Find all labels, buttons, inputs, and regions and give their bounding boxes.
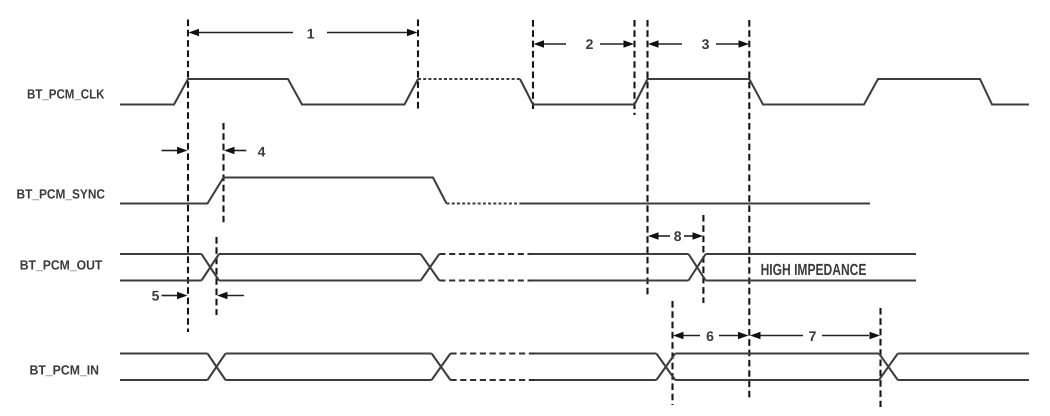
svg-text:HIGH IMPEDANCE: HIGH IMPEDANCE <box>761 261 867 279</box>
svg-text:BT_PCM_CLK: BT_PCM_CLK <box>27 87 105 102</box>
svg-text:BT_PCM_OUT: BT_PCM_OUT <box>20 258 103 273</box>
svg-text:BT_PCM_SYNC: BT_PCM_SYNC <box>17 187 106 202</box>
svg-text:5: 5 <box>152 288 160 304</box>
svg-text:3: 3 <box>702 36 710 52</box>
svg-text:6: 6 <box>706 328 714 344</box>
svg-text:1: 1 <box>307 25 315 41</box>
svg-text:8: 8 <box>674 228 682 244</box>
svg-text:2: 2 <box>586 36 594 52</box>
svg-text:BT_PCM_IN: BT_PCM_IN <box>30 363 100 378</box>
svg-text:4: 4 <box>258 143 266 159</box>
svg-text:7: 7 <box>809 328 817 344</box>
